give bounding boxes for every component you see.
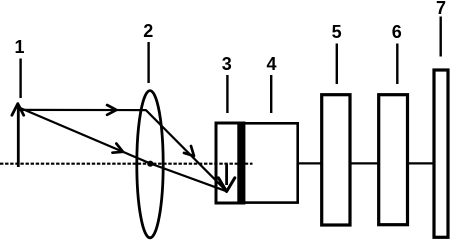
wire: connector box4 to box5	[298, 162, 322, 164]
arrowhead on central ray	[113, 144, 124, 153]
leader line 4	[270, 75, 272, 113]
wire: connector box5 to box6	[350, 162, 379, 164]
node: lens centre dot	[147, 161, 153, 167]
image arrow shaft	[225, 164, 228, 185]
lens L1 (ellipse)	[137, 91, 163, 238]
box 7	[434, 70, 448, 237]
arrowhead on horizontal ray	[107, 105, 116, 115]
image arrowhead (down)	[218, 178, 234, 192]
svg-text:5: 5	[332, 22, 342, 42]
svg-text:2: 2	[143, 21, 153, 41]
arrowhead on steep ray	[184, 146, 194, 156]
leader line 5	[336, 44, 338, 85]
leader line 1	[19, 59, 21, 99]
optical axis (dashed)	[0, 163, 253, 165]
svg-text:7: 7	[436, 0, 446, 18]
leader line 6	[396, 44, 398, 85]
wire: connector box6 to box7	[408, 162, 435, 164]
wire: horizontal ray to lens	[19, 109, 147, 111]
wire: central ray continuation to image point	[150, 164, 226, 192]
leader line 2	[147, 42, 149, 83]
svg-text:6: 6	[392, 22, 402, 42]
svg-text:1: 1	[14, 37, 24, 57]
box 5	[322, 95, 350, 225]
leader line 3	[226, 75, 228, 113]
leader line 7	[440, 17, 442, 57]
box 3	[216, 123, 242, 203]
svg-text:3: 3	[222, 54, 232, 74]
thick bar (box3/box4 divider)	[237, 122, 245, 205]
object arrowhead	[12, 104, 24, 116]
object arrow shaft	[17, 106, 20, 167]
box 4	[240, 123, 298, 202]
wire: refracted steep ray to image point	[146, 110, 227, 191]
box 6	[379, 95, 408, 225]
svg-text:4: 4	[266, 54, 276, 74]
wire: central ray (object tip to lens centre)	[19, 108, 150, 164]
